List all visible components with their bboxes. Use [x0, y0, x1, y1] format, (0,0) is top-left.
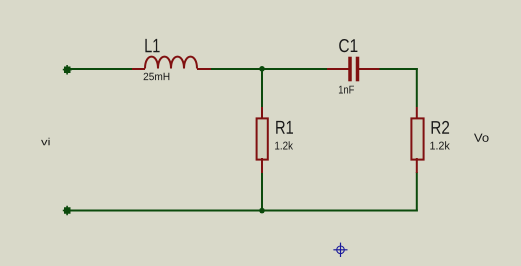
R1 label	[276, 121, 293, 134]
resistor R1	[257, 107, 268, 173]
capacitor C1	[327, 57, 380, 82]
C1 value 1nF	[339, 86, 354, 94]
terminal pin bottom-left	[63, 206, 72, 216]
wire right vertical (to R2)	[416, 68, 418, 107]
C1 label	[339, 39, 357, 52]
origin marker (crosshair)	[333, 243, 347, 257]
wire top-middle horizontal	[211, 68, 327, 70]
L1 value 25mH	[144, 73, 170, 81]
junction bottom (R1/bottom wire)	[259, 208, 265, 214]
R2 value 1.2k	[430, 141, 449, 149]
L1 label	[145, 39, 159, 52]
wire R1 top vertical	[261, 69, 263, 108]
R2 label	[432, 121, 450, 134]
inductor L1	[132, 57, 211, 69]
wire top-left horizontal	[67, 68, 132, 70]
wire top-right horizontal	[379, 68, 418, 70]
node Vo label	[474, 134, 489, 142]
wire R2 bottom vertical	[416, 172, 418, 212]
wire bottom horizontal	[67, 210, 418, 212]
R1 value 1.2k	[275, 141, 293, 149]
node vi label	[41, 138, 50, 146]
resistor R2	[411, 107, 423, 173]
junction top (R1/top wire)	[259, 66, 265, 72]
wire R1 bottom vertical	[261, 172, 263, 211]
terminal pin top-left	[63, 65, 72, 75]
